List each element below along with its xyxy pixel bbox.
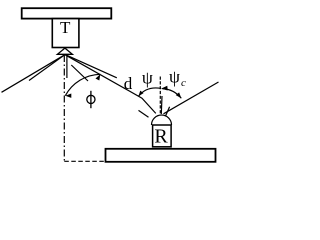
transmitter box T (52, 19, 79, 48)
label phi (circle with stem) (87, 91, 95, 108)
phi arc right arrowhead (95, 74, 100, 80)
angle psi_c arc (162, 89, 181, 99)
horizontal dashed line to table (64, 160, 105, 162)
LED triangle (57, 48, 72, 54)
receiver dome (152, 115, 172, 125)
ceiling bar (22, 8, 112, 18)
ray steep-right (71, 65, 88, 81)
receiver box R (153, 125, 172, 147)
svg-text:R: R (154, 126, 168, 148)
svg-text:d: d (124, 74, 133, 93)
ray beam-edge right (65, 54, 117, 77)
wire d: line T to R (65, 55, 156, 114)
receiver fan ray near-vertical (160, 96, 163, 114)
table (106, 149, 216, 162)
psi_c arc right arrowhead (176, 92, 182, 98)
angle psi arc (139, 88, 162, 96)
phi arc left arrowhead (65, 94, 71, 98)
psi_c arc left arrowhead (161, 86, 168, 91)
svg-text:ψ: ψ (142, 68, 153, 88)
ray near-vertical (66, 56, 68, 78)
receiver fan ray far-left shallow (139, 110, 149, 117)
psi arc left arrowhead (139, 91, 144, 97)
transmitter axis dash-dot line (63, 55, 65, 161)
receiver fan ray short right (165, 107, 169, 117)
svg-text:c: c (181, 77, 186, 89)
receiver FOV edge ray (164, 82, 219, 114)
ray mid-left (29, 55, 65, 81)
receiver normal dashed line (159, 77, 161, 114)
svg-text:T: T (60, 18, 71, 37)
angle phi arc (65, 74, 100, 95)
ray far-left (2, 55, 65, 93)
svg-text:ψ: ψ (169, 67, 180, 87)
